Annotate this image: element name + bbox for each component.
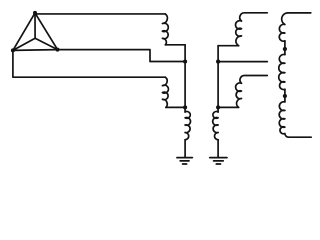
wire: T3 link lower (284, 89, 286, 102)
junction: T1 tap at middle bus (183, 59, 187, 63)
winding: transformer T2 tertiary coil (to ground) (213, 112, 218, 140)
winding: transformer T3 upper coil (279, 13, 288, 41)
wire: T2 to ground (217, 140, 219, 158)
ground: T2 earth (210, 158, 227, 164)
winding: transformer T3 middle coil (279, 54, 285, 89)
node: generator terminal c (bottom-right vertex) (56, 48, 60, 52)
winding: transformer T3 lower coil (279, 102, 288, 137)
ground: T1 earth (177, 158, 192, 164)
wire: T2 primary bottom to vertical (218, 45, 239, 47)
winding: transformer T1 tertiary coil (to ground) (185, 112, 190, 140)
generator G (delta with internal wye) (13, 13, 58, 51)
wire: top bus phase a (35, 13, 165, 15)
wire: middle bus phase c with step (58, 50, 186, 62)
winding: transformer T1 primary coil (top) (162, 14, 168, 45)
junction: T2 tap upper (216, 60, 220, 64)
node: generator terminal a (top vertex) (33, 11, 37, 15)
junction: T3 tap lower (283, 94, 287, 98)
wire: T1 primary bottom to vertical (165, 44, 185, 46)
wire: T3 bottom lead (289, 136, 312, 138)
wire: T3 link upper (284, 41, 286, 55)
junction: T1 tap at secondary (183, 105, 187, 109)
wire: T3 top lead (288, 12, 311, 14)
node: generator terminal b (bottom-left vertex) (11, 48, 15, 52)
junction: T3 tap upper (283, 47, 287, 51)
wire: T1 vertical link (184, 45, 186, 112)
junction: T2 tap lower (216, 105, 220, 109)
wire: T1 secondary bottom to vertical (166, 106, 185, 108)
winding: transformer T2 primary coil (top) (236, 13, 268, 46)
wire: T2 secondary bottom to vertical (218, 106, 239, 108)
wire: bottom bus phase b (13, 50, 165, 77)
wire: T1 to ground (184, 140, 186, 158)
winding: transformer T2 secondary coil (middle) (236, 76, 268, 108)
wire: T2 vertical link (217, 46, 219, 112)
wire: T2 upper tap lead (218, 61, 267, 63)
winding: transformer T1 secondary coil (middle) (162, 77, 168, 107)
